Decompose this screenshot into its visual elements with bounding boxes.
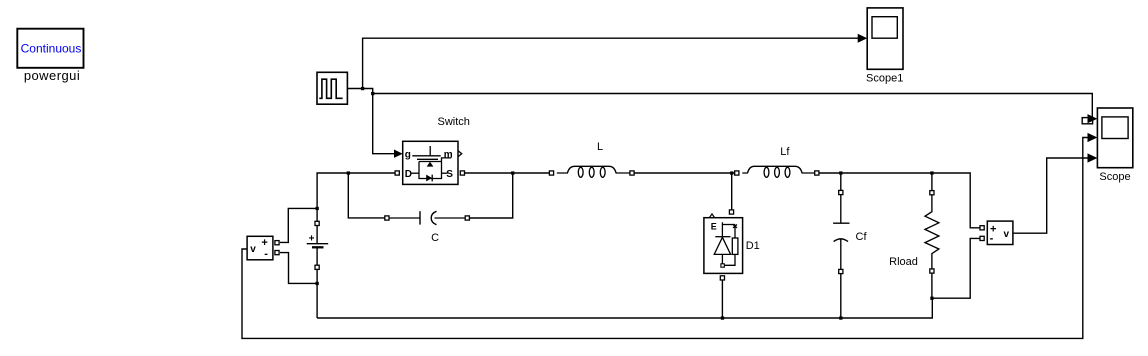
svg-text:C: C [431, 232, 439, 244]
svg-text:m: m [444, 149, 453, 160]
svg-text:Rload: Rload [889, 256, 918, 268]
svg-text:D1: D1 [746, 240, 760, 252]
svg-text:-: - [264, 248, 268, 260]
svg-text:Switch: Switch [437, 116, 469, 128]
svg-text:E: E [711, 221, 717, 231]
svg-text:L: L [597, 141, 603, 153]
svg-text:+: + [309, 233, 315, 244]
svg-text:Cf: Cf [856, 231, 868, 243]
svg-text:Continuous: Continuous [21, 41, 82, 55]
svg-text:v: v [1004, 229, 1010, 240]
svg-text:D: D [405, 169, 412, 180]
svg-text:g: g [405, 149, 411, 160]
svg-text:S: S [446, 169, 453, 180]
svg-text:Lf: Lf [780, 146, 790, 158]
svg-text:Scope1: Scope1 [866, 73, 903, 85]
svg-text:powergui: powergui [24, 68, 80, 83]
svg-text:-: - [990, 232, 994, 244]
svg-text:Scope: Scope [1099, 171, 1130, 183]
svg-text:v: v [250, 244, 256, 255]
